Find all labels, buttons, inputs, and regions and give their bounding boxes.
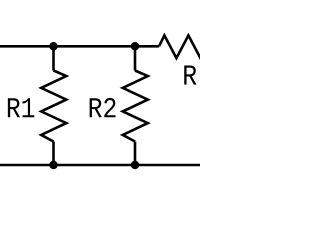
wire bottom rail <box>0 164 200 167</box>
resistor R3 (horizontal, cut off at right edge) <box>159 35 206 58</box>
wire R1 bottom lead <box>52 142 55 166</box>
resistor R1 <box>41 71 66 142</box>
label R2 <box>90 98 116 117</box>
node junction dot top of R1 <box>49 42 58 51</box>
node junction dot bottom of R2 <box>131 161 140 170</box>
wire R1 top lead <box>52 46 55 70</box>
wire top rail <box>0 45 159 48</box>
wire R2 bottom lead <box>134 142 137 166</box>
node junction dot top of R2 <box>131 42 140 51</box>
resistor R2 <box>123 71 148 142</box>
node junction dot bottom of R1 <box>49 161 58 170</box>
label R1 <box>8 98 34 117</box>
wire R2 top lead <box>134 46 137 70</box>
label R3 (digit cut off beyond right edge) <box>184 65 196 84</box>
